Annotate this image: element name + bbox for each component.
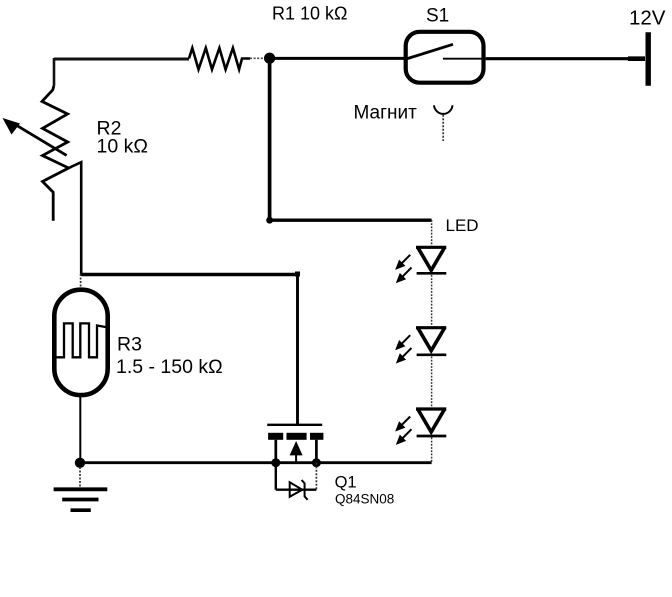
svg-text:LED: LED	[446, 216, 479, 235]
switch S1 contact	[443, 58, 485, 60]
wire to LED column	[270, 219, 432, 222]
wire gate vertical	[296, 274, 299, 424]
wire end thick	[628, 56, 645, 61]
photoresistor R3 body	[54, 290, 107, 395]
svg-text:Магнит: Магнит	[354, 103, 418, 124]
body diode triangle	[290, 482, 303, 497]
switch S1 arm	[405, 44, 454, 59]
wire node down to LED row	[268, 58, 272, 220]
potentiometer R2 arrow shaft	[11, 122, 67, 155]
LED D1 arrows	[396, 255, 412, 282]
gate tick	[295, 272, 300, 277]
svg-text:Q1: Q1	[335, 474, 357, 492]
terminal 12V bar	[646, 32, 651, 86]
ground bar 3	[71, 508, 91, 512]
potentiometer R2 zigzag	[42, 86, 69, 221]
node B junction dot	[266, 217, 273, 224]
transistor Q1 body stem	[295, 455, 297, 463]
photoresistor R3 meander	[56, 323, 106, 357]
junction dot drain	[312, 458, 321, 467]
wire R3 bottom	[79, 397, 81, 463]
ground stem	[79, 467, 81, 488]
wire top-left horizontal	[54, 58, 189, 61]
transistor Q1 gate bar	[267, 424, 322, 426]
svg-text:S1: S1	[426, 6, 449, 27]
svg-text:R1 10 kΩ: R1 10 kΩ	[272, 4, 348, 24]
LED D2	[416, 328, 446, 355]
wire LED column seg1	[431, 220, 433, 246]
body diode loop bottom	[276, 489, 317, 491]
svg-text:1.5 - 150 kΩ: 1.5 - 150 kΩ	[116, 356, 223, 378]
wire tap corner to gate	[81, 273, 297, 277]
svg-text:10 kΩ: 10 kΩ	[97, 136, 148, 158]
transistor Q1 source pad	[268, 433, 283, 440]
transistor Q1 drain lead	[315, 440, 318, 463]
wire R1 to node	[250, 57, 264, 59]
transistor Q1 body arrow	[290, 441, 303, 455]
ground junction dot	[75, 458, 85, 468]
magnet symbol	[434, 105, 453, 114]
potentiometer R2 arrowhead	[3, 118, 21, 135]
switch S1 body	[406, 32, 484, 83]
svg-text:R3: R3	[117, 334, 142, 356]
R2 wiper tap	[69, 162, 82, 274]
ground bar 2	[62, 498, 98, 502]
wire node to S1	[269, 57, 404, 60]
LED D2 arrows	[396, 335, 412, 363]
junction dot source	[271, 458, 280, 467]
resistor R1	[189, 48, 250, 69]
transistor Q1 source lead	[274, 440, 277, 463]
transistor Q1 drain pad	[310, 433, 323, 440]
wire LED column seg2	[431, 275, 433, 326]
ground bar 1	[54, 487, 108, 491]
LED D3	[416, 409, 446, 436]
body diode loop left	[275, 463, 277, 490]
wire R3 top stub	[80, 274, 82, 288]
wire bottom rail	[80, 461, 432, 464]
wire S1 to 12V	[486, 57, 645, 60]
transistor Q1 body pad	[287, 433, 307, 440]
wire top-left vertical	[53, 58, 56, 86]
svg-text:12V: 12V	[629, 7, 666, 30]
body diode zener bar	[302, 480, 308, 500]
wire LED column seg3	[431, 357, 433, 408]
svg-text:Q84SN08: Q84SN08	[335, 491, 394, 506]
LED D3 arrows	[396, 417, 412, 445]
wire LED column seg4	[431, 438, 433, 463]
LED D1	[416, 247, 446, 273]
body diode loop right	[315, 463, 317, 490]
node A junction dot	[264, 53, 275, 64]
